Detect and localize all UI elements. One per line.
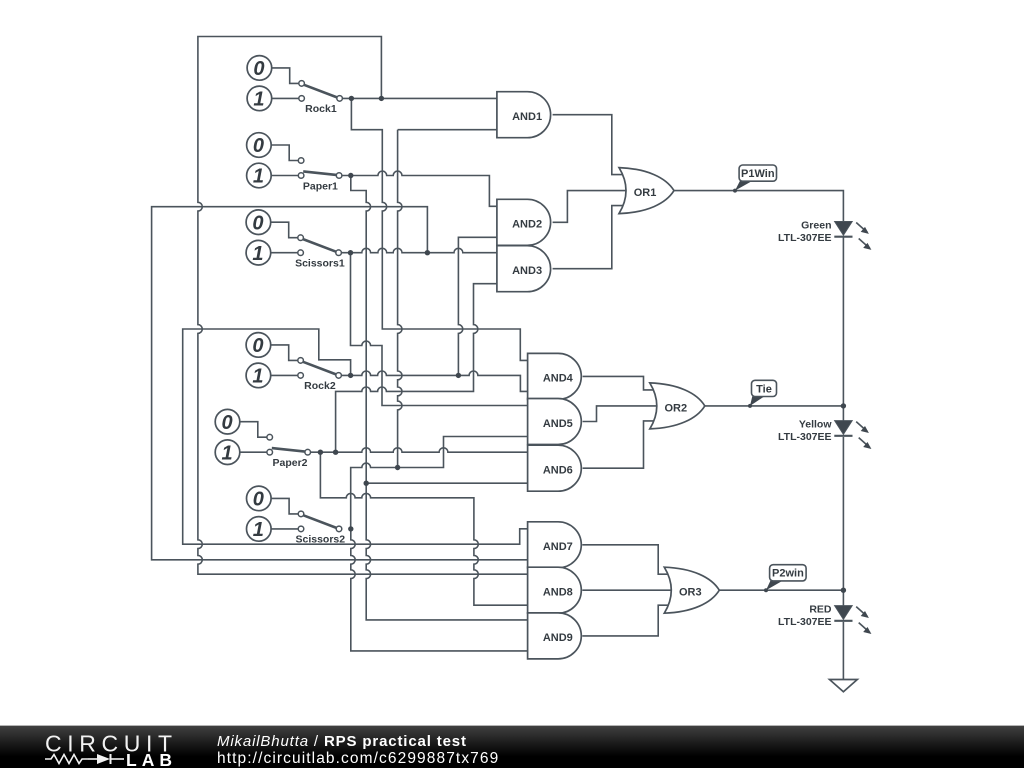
svg-text:1: 1 [221, 442, 232, 464]
wire rail yellow LED to red LED [842, 437, 844, 606]
wire Scissors2 riser to AND1 pin2 [398, 130, 402, 468]
svg-text:AND4: AND4 [543, 373, 574, 385]
LED green D1 LTL-307EE [778, 220, 871, 250]
AND gate AND8 [528, 567, 582, 613]
wire rail green LED to yellow LED [842, 237, 844, 421]
footer url [217, 750, 499, 768]
net flag P2win [764, 565, 806, 593]
svg-text:0: 0 [252, 335, 263, 357]
svg-text:Paper1: Paper1 [303, 180, 338, 192]
svg-text:Green: Green [801, 220, 831, 232]
svg-text:0: 0 [252, 212, 263, 234]
junction node at (350.8,175.5) [348, 173, 353, 178]
svg-text:Tie: Tie [756, 383, 772, 395]
wire AND5 out to OR2 in2 [583, 406, 658, 422]
AND gate AND9 [528, 613, 582, 659]
wire AND6 pin2 stub from Paper1 junction [366, 482, 527, 484]
junction node at (350.5,252.7) [348, 250, 353, 255]
wire Paper1 output row to AND2 pin1 [342, 171, 498, 206]
wire Scissors1 output row to AND3 pin1 [341, 248, 498, 252]
footer bar [0, 725, 1024, 768]
junction node at (351.4,98.4) [349, 96, 354, 101]
wire AND1 pin2 stub [398, 129, 498, 131]
svg-text:P2win: P2win [772, 568, 804, 580]
OR gate OR2 [650, 383, 705, 429]
AND gate AND7 [528, 522, 582, 568]
svg-text:Scissors2: Scissors2 [295, 534, 345, 546]
svg-text:Yellow: Yellow [799, 419, 833, 431]
OR gate OR1 [619, 168, 674, 214]
svg-text:Rock2: Rock2 [304, 380, 336, 392]
svg-text:1: 1 [253, 166, 264, 188]
wire OR3 out to LED rail [719, 589, 843, 591]
svg-text:AND1: AND1 [512, 111, 542, 123]
AND gate AND1 [497, 92, 551, 138]
wire Rock2 up to AND2 pin2 [458, 237, 497, 375]
svg-text:1: 1 [252, 366, 263, 388]
wire Rock2 feed loop around switches to AND7 pin1 [183, 329, 528, 544]
AND gate AND2 [497, 199, 551, 245]
wire OR2 out to LED rail [705, 405, 844, 407]
net flag P1Win [733, 165, 777, 193]
LED red D3 LTL-307EE [778, 604, 871, 634]
svg-text:RED: RED [809, 604, 832, 616]
svg-text:AND7: AND7 [543, 541, 573, 553]
junction node at (427.4,252.7) [425, 250, 430, 255]
junction node at (843.4,590.2) [841, 588, 846, 593]
wire Rock1 loop: top box via left edge down to AND8 pin1 [198, 37, 528, 575]
svg-text:0: 0 [253, 135, 264, 157]
wire AND7 out to OR3 in1 [582, 545, 672, 574]
wire Paper1 branch down to AND9 pin1 [351, 176, 528, 620]
wire Rock1 output row to AND1 pin1 [342, 97, 498, 99]
svg-text:LTL-307EE: LTL-307EE [778, 616, 831, 628]
svg-text:AND9: AND9 [543, 632, 573, 644]
wire AND1 out to OR1 in1 [553, 115, 627, 175]
svg-text:LAB: LAB [126, 750, 172, 769]
svg-text:1: 1 [252, 243, 263, 265]
svg-text:0: 0 [253, 489, 264, 511]
AND gate AND6 [528, 445, 582, 491]
svg-text:0: 0 [253, 58, 264, 80]
svg-text:1: 1 [253, 89, 264, 111]
svg-text:OR1: OR1 [634, 187, 657, 199]
wire Paper2 down loop to AND8 pin2 [320, 452, 527, 605]
AND gate AND4 [528, 353, 582, 399]
OR gate OR3 [664, 567, 719, 613]
svg-text:0: 0 [221, 412, 232, 434]
junction node at (381.4,98.4) [379, 96, 384, 101]
svg-text:P1Win: P1Win [741, 168, 775, 180]
wire rail red LED to ground [842, 622, 844, 680]
svg-text:AND5: AND5 [543, 418, 573, 430]
wire AND8 out to OR3 in2 [582, 589, 672, 591]
wire AND6 out to OR2 in3 [583, 421, 658, 468]
wire AND3 out to OR1 in3 [553, 206, 627, 269]
svg-text:AND3: AND3 [512, 265, 542, 277]
wire Rock2 output row to AND4 pin2 [341, 371, 527, 391]
wire Rock1 branch down to AND4 pin1 [351, 98, 527, 360]
junction node at (458.4,375.4) [456, 373, 461, 378]
switch Scissors1 [246, 210, 345, 270]
wire Paper2 output row to AND6 pin1 [311, 448, 528, 452]
switch Scissors2 [246, 486, 345, 546]
svg-text:OR2: OR2 [664, 402, 687, 414]
wire Scissors2 down to AND9 pin2 [351, 529, 528, 651]
switch Paper2 [215, 409, 310, 469]
switch Rock2 [246, 333, 341, 393]
svg-text:LTL-307EE: LTL-307EE [778, 431, 831, 443]
wire Scissors1 branch down to AND5 pin1 [351, 253, 528, 406]
svg-text:CIRCUIT: CIRCUIT [45, 731, 174, 757]
LED yellow D2 LTL-307EE [778, 419, 871, 449]
switch Paper1 [247, 133, 342, 193]
svg-text:LTL-307EE: LTL-307EE [778, 232, 831, 244]
svg-text:Scissors1: Scissors1 [295, 258, 345, 270]
wire AND2 out to OR1 in2 [553, 191, 627, 223]
wire Scissors1 long loop left side to AND7 pin2 [152, 207, 528, 560]
svg-text:AND8: AND8 [543, 587, 573, 599]
switch Rock1 [247, 56, 342, 116]
junction node at (335.6,452.2) [333, 450, 338, 455]
AND gate AND5 [528, 399, 582, 445]
CircuitLab logo [0, 726, 200, 769]
net flag Tie [748, 380, 777, 408]
svg-text:OR3: OR3 [679, 587, 702, 599]
svg-text:Paper2: Paper2 [272, 457, 307, 469]
svg-text:AND2: AND2 [512, 219, 542, 231]
junction node at (320.4,452.2) [318, 450, 323, 455]
wire Scissors2 up branch to AND5 pin2 [351, 437, 528, 529]
ground [830, 680, 858, 692]
svg-text:1: 1 [253, 519, 264, 541]
junction node at (366.2,483.2) [364, 481, 369, 486]
wire AND9 out to OR3 in3 [582, 605, 672, 636]
junction node at (350.8,528.9) [348, 526, 353, 531]
footer title [217, 733, 467, 750]
wire Paper2 up to AND3 pin2 [336, 284, 498, 453]
junction node at (350.6,375.4) [348, 373, 353, 378]
svg-text:Rock1: Rock1 [305, 103, 337, 115]
wire OR1 out to LED rail [674, 191, 843, 222]
svg-text:AND6: AND6 [543, 465, 573, 477]
AND gate AND3 [497, 246, 551, 292]
junction node at (843.4,405.9) [841, 403, 846, 408]
wire AND4 out to OR2 in1 [583, 376, 658, 390]
junction node at (397.6,467.5) [395, 465, 400, 470]
